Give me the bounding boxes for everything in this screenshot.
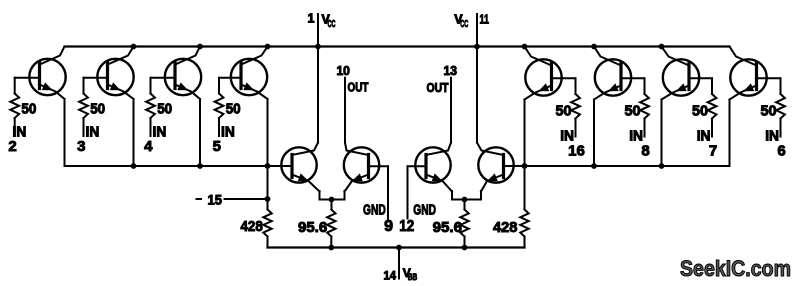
- svg-text:50: 50: [90, 102, 105, 118]
- svg-text:16: 16: [568, 142, 585, 159]
- node: left bus / 428 junction: [265, 163, 271, 169]
- svg-text:5: 5: [213, 138, 221, 155]
- wire: Q8 emitter to bus: [729, 100, 731, 167]
- svg-text:15: 15: [208, 193, 223, 208]
- node: Q2 collector junction on VCC rail: [131, 44, 137, 50]
- transistor Q5 (input pin 16): [525, 47, 576, 100]
- wire: Q7 emitter to bus: [661, 100, 663, 167]
- svg-text:7: 7: [709, 142, 717, 159]
- wire: left emitter bus: [65, 165, 293, 167]
- svg-text:50: 50: [226, 102, 241, 118]
- transistor Q10 (left pair, collector to pin 10 OUT): [344, 143, 379, 192]
- pin label 10 OUT: [336, 64, 368, 94]
- wire: Q9 emitter drop: [319, 191, 321, 200]
- svg-text:GND: GND: [363, 203, 386, 219]
- wire: Q11 base to pin 12: [408, 165, 427, 167]
- transistor Q12 (right pair, collector to pin 11): [477, 143, 514, 192]
- svg-text:GND: GND: [413, 203, 436, 219]
- svg-text:50: 50: [625, 104, 641, 120]
- wire: VCC pin 11 line down to Q12 collector: [476, 47, 478, 143]
- wire: Q3 emitter to bus: [199, 99, 201, 166]
- pin label 13 OUT: [427, 64, 458, 95]
- transistor Q11 (right pair, collector to pin 13 OUT): [415, 143, 452, 192]
- wire: right 95.6 to bottom rail: [464, 237, 466, 248]
- pin label IN 5: [213, 125, 235, 155]
- svg-text:9: 9: [384, 218, 393, 235]
- svg-text:50: 50: [556, 104, 572, 120]
- svg-text:50: 50: [692, 104, 708, 120]
- wire: right 95.6 column upper: [464, 200, 466, 210]
- node: left pair emitter junction: [329, 197, 335, 203]
- resistor 50 ohm (pin 3 input): [79, 94, 88, 119]
- svg-text:IN: IN: [221, 125, 235, 141]
- wire: input pin 2 lead: [14, 78, 16, 94]
- wire: Q6 emitter to bus: [593, 100, 595, 167]
- pin label 12 GND: [399, 203, 436, 236]
- resistor 50 ohm (pin 4 input): [146, 94, 155, 119]
- wire: Q11 emitter drop: [451, 191, 453, 200]
- wire: right emitter bus: [504, 165, 730, 167]
- pin label GND 9: [363, 203, 393, 236]
- svg-text:95.6: 95.6: [433, 220, 462, 236]
- svg-text:11: 11: [480, 13, 490, 27]
- resistor R 428 (left): [263, 210, 271, 237]
- wire: Q10 base to pin 9: [369, 165, 389, 167]
- node: pin 1 junction on VCC rail: [315, 44, 321, 50]
- resistor 50 ohm (pin 8 input): [640, 94, 649, 119]
- node: Q4 collector junction on VCC rail: [265, 44, 271, 50]
- pin label VCC 11: [454, 13, 489, 30]
- wire: pin 11 VCC lead: [476, 14, 478, 47]
- svg-text:4: 4: [144, 138, 153, 155]
- wire: Q2 emitter to bus: [133, 99, 135, 166]
- svg-text:BB: BB: [408, 272, 418, 283]
- svg-text:50: 50: [157, 102, 172, 118]
- node: right 95.6 junction on bottom rail: [462, 245, 468, 251]
- transistor Q7 (input pin 7): [662, 47, 713, 100]
- pin label IN 3: [77, 125, 99, 155]
- resistor R 95.6 (left): [327, 210, 335, 237]
- pin label IN 4: [144, 125, 166, 155]
- svg-text:CC: CC: [460, 18, 468, 30]
- node: pin 11 junction on VCC rail: [474, 44, 480, 50]
- wire: pin 15 tick mark: [197, 198, 202, 200]
- wire: input pin 3 lead: [83, 78, 85, 94]
- svg-text:428: 428: [241, 219, 263, 235]
- transistor Q3 (input pin 4): [151, 47, 202, 100]
- resistor 50 ohm (pin 2 input): [10, 94, 19, 119]
- wire: Q11-Q12 common emitter segment: [452, 199, 481, 201]
- resistor 50 ohm (pin 5 input): [215, 94, 224, 119]
- svg-text:OUT: OUT: [427, 81, 449, 95]
- node: Q7 emitter junction on bus: [659, 163, 665, 169]
- wire: left 428 column upper: [267, 166, 269, 210]
- svg-text:10: 10: [336, 64, 350, 78]
- node: pin 15 junction: [265, 196, 271, 202]
- pin label IN 6: [765, 129, 785, 160]
- node: Q3 emitter junction on bus: [197, 163, 203, 169]
- svg-text:8: 8: [641, 142, 649, 159]
- svg-text:428: 428: [493, 220, 517, 236]
- node: right bus / 428 junction: [522, 163, 528, 169]
- svg-text:OUT: OUT: [348, 81, 369, 95]
- node: Q5 collector junction on VCC rail: [522, 44, 528, 50]
- pin label IN 7: [697, 129, 717, 160]
- wire: pin 10 OUT line down to Q10 collector: [344, 78, 346, 143]
- wire: bottom VBB rail: [268, 246, 525, 248]
- wire: left 95.6 column upper: [331, 200, 333, 210]
- svg-text:IN: IN: [86, 125, 100, 141]
- wire: pin 9 GND lead: [387, 166, 389, 218]
- pin label IN 16: [560, 129, 585, 160]
- svg-text:CC: CC: [328, 18, 336, 30]
- svg-text:13: 13: [444, 64, 458, 78]
- pin label IN 2: [8, 125, 26, 155]
- wire: pin 13 OUT line down to Q11 collector: [450, 78, 452, 143]
- node: Q6 collector junction on VCC rail: [591, 44, 597, 50]
- wire: pin 12 GND lead: [407, 166, 409, 218]
- svg-text:3: 3: [77, 138, 85, 155]
- wire: input pin 4 lead: [150, 78, 152, 94]
- wire: Q9-Q10 common emitter segment: [320, 199, 345, 201]
- wire: Q1 emitter to bus: [64, 99, 66, 166]
- transistor Q9 (left pair, collector to pin 1): [281, 143, 319, 192]
- wire: right 428 to bottom rail: [524, 237, 526, 248]
- wire: VCC pin 1 line down to Q9 collector: [317, 47, 319, 143]
- transistor Q1 (input pin 2): [15, 47, 66, 100]
- wire: left 428 to bottom rail: [267, 237, 269, 248]
- node: Q7 collector junction on VCC rail: [659, 44, 665, 50]
- pin label 14 VBB: [384, 266, 418, 283]
- resistor 50 ohm (pin 6 input): [776, 94, 785, 119]
- svg-text:SeekIC.com: SeekIC.com: [680, 256, 791, 281]
- svg-text:1: 1: [308, 12, 315, 26]
- wire: Q4 emitter to bus: [267, 99, 269, 166]
- node: right pair emitter junction: [462, 197, 468, 203]
- node: Q4 emitter junction on bus: [265, 163, 271, 169]
- pin label IN 8: [629, 129, 649, 160]
- wire: right 428 column upper: [524, 166, 526, 210]
- wire: input pin 8 lead: [644, 78, 646, 94]
- svg-text:6: 6: [777, 142, 785, 159]
- resistor R 428 (right): [520, 210, 528, 237]
- wire: left 95.6 to bottom rail: [330, 237, 332, 248]
- node: Q5 emitter junction on bus: [522, 163, 528, 169]
- transistor Q6 (input pin 8): [594, 47, 645, 100]
- svg-text:IN: IN: [153, 125, 167, 141]
- wire: input pin 5 lead: [218, 78, 220, 94]
- node: Q6 emitter junction on bus: [591, 163, 597, 169]
- wire: input pin 16 lead: [575, 78, 577, 94]
- wire: Q10 emitter drop: [344, 191, 346, 200]
- svg-text:14: 14: [384, 271, 397, 283]
- node: Q2 emitter junction on bus: [131, 163, 137, 169]
- svg-text:50: 50: [761, 104, 777, 120]
- svg-text:50: 50: [21, 102, 36, 118]
- node: left 95.6 junction on bottom rail: [328, 245, 334, 251]
- wire: pin 15 lead: [225, 198, 268, 200]
- wire: VCC top rail: [65, 45, 730, 47]
- svg-text:95.6: 95.6: [298, 220, 327, 236]
- wire: pin 14 VBB lead: [398, 248, 400, 279]
- svg-text:12: 12: [399, 218, 414, 235]
- resistor R 95.6 (right): [460, 210, 468, 237]
- transistor Q8 (input pin 6): [730, 47, 781, 100]
- transistor Q2 (input pin 3): [84, 47, 134, 100]
- wire: pin 1 VCC lead: [317, 14, 319, 47]
- node: Q3 collector junction on VCC rail: [197, 44, 203, 50]
- wire: input pin 6 lead: [780, 78, 782, 94]
- wire: Q12 emitter drop: [480, 191, 482, 200]
- svg-text:2: 2: [8, 138, 16, 155]
- resistor 50 ohm (pin 16 input): [571, 94, 580, 119]
- pin label 1 VCC: [308, 12, 336, 30]
- transistor Q4 (input pin 5): [219, 47, 268, 100]
- node: pin 14 junction on bottom rail: [396, 245, 402, 251]
- wire: input pin 7 lead: [711, 78, 713, 94]
- wire: Q5 emitter to bus: [524, 100, 526, 167]
- resistor 50 ohm (pin 7 input): [708, 94, 717, 119]
